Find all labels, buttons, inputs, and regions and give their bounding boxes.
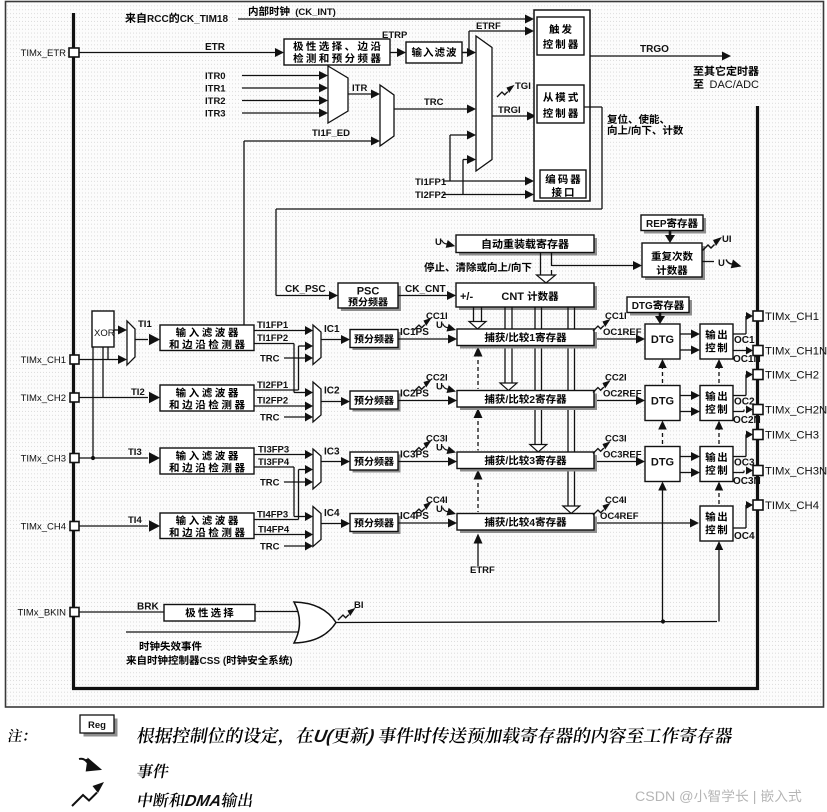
svg-text:TI2: TI2 <box>131 387 145 398</box>
svg-text:U: U <box>436 443 443 454</box>
wire OC2 to pad <box>733 395 746 397</box>
wire OC3N to pad <box>733 472 744 474</box>
svg-text:CC4I: CC4I <box>605 495 627 506</box>
svg-text:TIMx_CH1: TIMx_CH1 <box>21 355 66 366</box>
wire OC1N to pad <box>733 350 747 352</box>
box: capture/compare register 3 <box>460 455 597 472</box>
svg-text:(CK_INT): (CK_INT) <box>295 7 336 18</box>
dashed BI into output control 1 <box>718 368 720 383</box>
svg-text:OC3REF: OC3REF <box>603 450 642 461</box>
svg-text:/: / <box>505 394 508 406</box>
svg-text:DTG: DTG <box>651 396 674 408</box>
svg-text:U: U <box>436 382 443 393</box>
label: to other timers <box>694 66 704 75</box>
svg-text:TRC: TRC <box>260 542 280 553</box>
zigzag CC2I right <box>593 380 611 392</box>
svg-text:ITR: ITR <box>352 83 367 94</box>
legend interrupt/DMA icon <box>72 782 104 806</box>
wire ETRF into trigger mux <box>462 52 468 54</box>
zigzag CC3I right <box>593 441 611 453</box>
event arrow U repetition <box>702 261 714 263</box>
svg-text:ITR2: ITR2 <box>205 96 226 107</box>
svg-text:TI2FP2: TI2FP2 <box>415 190 446 201</box>
pad TIMx_CH1 <box>753 311 763 321</box>
svg-text:): ) <box>289 656 292 667</box>
svg-text:IC2: IC2 <box>324 386 340 397</box>
svg-text:TRGO: TRGO <box>640 44 669 55</box>
svg-text:TIMx_CH1: TIMx_CH1 <box>765 311 819 323</box>
svg-text:TI1FP2: TI1FP2 <box>257 333 288 344</box>
svg-text:|: | <box>749 789 761 805</box>
wire XOR tap to CH2 <box>102 347 104 398</box>
wire counter to capture/compare 3 (double) <box>534 307 536 445</box>
box: prescaler IC4 <box>353 516 401 534</box>
box: XOR <box>92 311 114 347</box>
legend text: event <box>136 763 154 778</box>
wire TI4 <box>79 525 148 527</box>
svg-text:TIMx_CH2N: TIMx_CH2N <box>765 405 827 417</box>
wire ITR0 <box>242 75 320 77</box>
wire DTG2 to output control (upper) <box>680 395 692 397</box>
svg-text:U: U <box>718 258 725 269</box>
svg-text:OC2REF: OC2REF <box>603 389 642 400</box>
svg-text:OC1REF: OC1REF <box>603 327 642 338</box>
wire OC1 to pad <box>733 333 746 335</box>
box: capture/compare register 2 <box>460 394 597 411</box>
zigzag UI interrupt <box>703 237 723 251</box>
svg-text:CC3I: CC3I <box>605 434 627 445</box>
svg-text:TIMx_CH2: TIMx_CH2 <box>21 393 66 404</box>
pad TIMx_CH3N <box>753 466 763 476</box>
wire BRK <box>79 611 164 613</box>
svg-text:U: U <box>436 320 443 331</box>
svg-text:CC1I: CC1I <box>605 311 627 322</box>
svg-text:ITR0: ITR0 <box>205 71 226 82</box>
box: DTG 2 <box>645 386 680 421</box>
box: output control 4 <box>700 506 733 541</box>
wire DTG3 to output control (upper) <box>680 456 692 458</box>
svg-text:Reg: Reg <box>88 720 106 731</box>
svg-text:PSC: PSC <box>357 286 380 298</box>
pad TIMx_CH3 <box>753 430 763 440</box>
svg-text:TI1F_ED: TI1F_ED <box>312 128 350 139</box>
svg-text:TIMx_BKIN: TIMx_BKIN <box>17 608 66 619</box>
svg-text:3: 3 <box>529 455 535 467</box>
svg-text:): ) <box>364 726 380 746</box>
label: clock failure event <box>140 641 150 651</box>
wire TI3FP4 to IC4 mux <box>254 466 294 468</box>
wire OC3 to pad <box>733 456 746 458</box>
wire DTG1 to output control (lower) <box>680 349 692 351</box>
svg-text:OC2: OC2 <box>734 397 755 408</box>
svg-text:DTG: DTG <box>651 457 674 469</box>
dashed BI into output control 3 <box>718 490 720 504</box>
svg-text:CK_TIM18: CK_TIM18 <box>180 14 229 25</box>
wire CSS clock failure to OR gate <box>126 631 299 633</box>
box: capture/compare register 1 <box>460 332 597 349</box>
wire TRC channel4 <box>284 545 306 547</box>
dashed update arrow into capture/compare 2 <box>474 408 483 418</box>
svg-text:OC2N: OC2N <box>733 415 761 426</box>
svg-text:/: / <box>508 262 511 274</box>
svg-text:+/-: +/- <box>460 291 473 303</box>
svg-text:REP: REP <box>646 219 667 230</box>
wire XOR tap to CH3 <box>92 347 94 458</box>
svg-text:TIMx_CH4: TIMx_CH4 <box>21 522 66 533</box>
zigzag CC4I left <box>414 502 432 514</box>
wire DTG3 to output control (lower) <box>680 472 692 474</box>
box: prescaler IC3 <box>353 455 401 473</box>
wire OC4REF <box>597 522 691 524</box>
svg-text:BI: BI <box>354 600 364 611</box>
box: prescaler IC2 <box>353 394 401 412</box>
wire counter to capture/compare 1 (double) <box>473 307 475 322</box>
wire OC1REF <box>597 338 637 340</box>
svg-text:TIMx_CH1N: TIMx_CH1N <box>765 346 827 358</box>
zigzag CC3I left <box>414 440 432 452</box>
dashed BI into DTG1 <box>662 368 664 383</box>
zigzag TGI interrupt <box>497 85 515 97</box>
svg-text:TI3: TI3 <box>128 447 142 458</box>
pad TIMx_CH2 <box>70 393 79 402</box>
box: output control 2 <box>700 386 733 421</box>
svg-text:DAC/ADC: DAC/ADC <box>710 79 760 91</box>
wire slave mode control to prescaler <box>584 106 602 108</box>
wire XOR output to TI1 mux <box>114 329 119 331</box>
wire ITR1 <box>242 87 320 89</box>
wire IC2PS <box>398 400 449 402</box>
wire counter to capture/compare 2 (double) <box>504 307 506 384</box>
wire IC1 <box>321 339 342 341</box>
mux: TRC selector <box>380 85 394 146</box>
mux: IC2 selector <box>313 382 321 422</box>
svg-text:OC4: OC4 <box>734 531 755 542</box>
zigzag CC1I right <box>593 319 611 331</box>
wire IC3PS <box>398 461 449 463</box>
pad TIMx_CH3 <box>70 454 79 463</box>
wire TI1FP2 to IC2 mux <box>254 343 294 345</box>
box: REP register <box>644 218 706 234</box>
wire ETR <box>79 52 276 54</box>
bottom rail <box>72 687 759 690</box>
box: repetition counter <box>645 246 705 280</box>
svg-text:OC4REF: OC4REF <box>600 511 639 522</box>
box: DTG 1 <box>645 324 680 359</box>
pad TIMx_CH4 <box>70 522 79 531</box>
svg-text:TRC: TRC <box>260 478 280 489</box>
wire OC3REF <box>597 461 637 463</box>
wire update to repetition counter <box>552 265 634 267</box>
svg-text:TIMx_CH3N: TIMx_CH3N <box>765 466 827 478</box>
wire TI1FP1 to trigger mux and encoder <box>443 180 525 182</box>
svg-text:TI2FP2: TI2FP2 <box>257 396 288 407</box>
wire CK_CNT <box>398 295 448 297</box>
svg-text:TI1FP1: TI1FP1 <box>257 320 289 331</box>
wire TI1F_ED from channel1 filter <box>243 141 245 325</box>
wire TI2FP2 to trigger mux and encoder <box>443 194 525 196</box>
svg-text:/: / <box>505 517 508 529</box>
left pin rail <box>72 13 75 689</box>
wire TRC channel2 <box>284 416 306 418</box>
wire TI3 <box>79 457 148 459</box>
mux: IC4 selector <box>313 507 321 547</box>
svg-text:DMA: DMA <box>183 792 223 810</box>
wire counter to capture/compare 4 (double) <box>567 307 569 507</box>
svg-text:/: / <box>628 125 631 137</box>
box: slave mode controller <box>537 85 584 123</box>
zigzag CC2I left <box>414 379 432 391</box>
box: PSC prescaler <box>341 286 401 311</box>
label: from clock controller CSS <box>126 655 136 665</box>
wire IC2 <box>321 401 342 403</box>
legend text line 1 <box>136 727 156 744</box>
svg-text:CSDN @: CSDN @ <box>635 789 694 805</box>
legend text: interrupt and DMA output <box>137 792 153 807</box>
OR gate <box>294 602 336 643</box>
mux: TI1 selector <box>127 321 135 365</box>
wire TRGO <box>590 55 722 57</box>
svg-text:CSS (: CSS ( <box>200 656 227 667</box>
svg-text:CK_CNT: CK_CNT <box>405 284 446 295</box>
mux: IC1 selector <box>313 325 321 365</box>
dashed update arrow into capture/compare 3 <box>474 470 483 480</box>
svg-text:TIMx_CH3: TIMx_CH3 <box>765 430 819 442</box>
svg-text:TIMx_ETR: TIMx_ETR <box>21 48 67 59</box>
box: polarity selection <box>164 605 255 622</box>
wire TRC output of mux <box>394 108 468 110</box>
pad TIMx_CH4 <box>753 500 763 510</box>
box: output control 1 <box>700 324 733 359</box>
wire OC4 to pad <box>733 527 746 529</box>
box: prescaler IC1 <box>353 332 401 350</box>
box: input filter and edge detector channel 1 <box>160 325 254 351</box>
svg-text:XOR: XOR <box>94 328 115 339</box>
svg-text:DTG: DTG <box>632 301 653 312</box>
svg-text:IC3: IC3 <box>324 447 340 458</box>
zigzag BI interrupt <box>338 608 356 620</box>
wire XOR tap to CH1 <box>107 347 109 360</box>
wire BI <box>336 622 717 623</box>
wire TRGI <box>492 115 527 117</box>
wire TRC channel1 <box>284 357 306 359</box>
wire IC1PS <box>398 338 449 340</box>
wire TI1FP1 <box>254 330 306 332</box>
wire ITR <box>348 93 372 95</box>
svg-text:DTG: DTG <box>651 334 674 346</box>
svg-text:TIMx_CH4: TIMx_CH4 <box>765 500 819 512</box>
right pin rail <box>756 106 759 690</box>
wire ETRP <box>390 52 398 54</box>
mux: IC3 selector <box>313 449 321 489</box>
svg-text:ETRP: ETRP <box>382 30 408 41</box>
box: polarity selection edge detector prescaler <box>284 39 390 65</box>
label: note <box>7 729 23 742</box>
wire IC3 <box>321 461 342 463</box>
label: from RCC CK_TIM18 <box>125 13 135 23</box>
wire ETRF to trigger controller <box>462 52 469 54</box>
svg-text:TRC: TRC <box>260 354 280 365</box>
svg-text:ETRF: ETRF <box>470 565 495 576</box>
box: input filter and edge detector channel 2 <box>160 385 254 411</box>
pad TIMx_BKIN <box>70 608 79 617</box>
wire DTG1 to output control (upper) <box>680 333 692 335</box>
wire TI4FP3 to IC3 mux <box>254 519 299 521</box>
wire BI to DTG column <box>662 485 664 622</box>
box: input filter and edge detector channel 3 <box>160 448 254 474</box>
wire ETRF into capture/compare 4 <box>474 534 483 544</box>
box: encoder interface <box>540 170 586 198</box>
svg-text:IC4: IC4 <box>324 508 340 519</box>
svg-text:/: / <box>505 455 508 467</box>
box: CNT counter <box>459 286 597 310</box>
wire OC2REF <box>597 400 637 402</box>
svg-text:TI1: TI1 <box>138 319 152 330</box>
svg-text:CC2I: CC2I <box>605 373 627 384</box>
wire auto-reload to counter (double) <box>540 253 542 276</box>
box: trigger/slave-mode controller container <box>534 10 590 201</box>
svg-text:4: 4 <box>529 517 535 529</box>
svg-text:U(: U( <box>312 726 336 746</box>
box: output control 3 <box>700 447 733 482</box>
svg-text:ITR3: ITR3 <box>205 109 226 120</box>
wire ITR2 <box>242 100 320 102</box>
wire OC2N to pad <box>733 411 744 413</box>
wire TI2FP2 <box>254 405 306 407</box>
svg-text:TIMx_CH2: TIMx_CH2 <box>765 370 819 382</box>
box: input filter and edge detector channel 4 <box>160 513 254 539</box>
arrow DTG register to DTG <box>659 313 662 317</box>
box: trigger controller U_TRG <box>537 17 584 55</box>
wire IC4 <box>321 523 342 525</box>
wire BI to output-control column <box>718 545 720 622</box>
box: capture/compare register 4 <box>460 517 597 534</box>
svg-text:ETR: ETR <box>205 42 226 53</box>
wire ITR3 <box>242 112 320 114</box>
label: stop clear or up/down <box>424 262 434 272</box>
svg-text:/: / <box>505 332 508 344</box>
pad TIMx_ETR <box>69 48 79 57</box>
box: input filter <box>406 42 462 63</box>
wire TIMx_CH1 to mux <box>79 359 119 361</box>
svg-text:TI4: TI4 <box>128 515 142 526</box>
pad TIMx_CH2 <box>753 370 763 380</box>
zigzag CC4I right <box>593 503 611 515</box>
mux: trigger input selector <box>476 36 492 171</box>
svg-text:OC1: OC1 <box>734 335 755 346</box>
zigzag CC1I left <box>414 318 432 330</box>
box: DTG register <box>630 300 692 316</box>
label: to DAC/ADC <box>694 79 704 88</box>
label: internal clock CK_INT <box>249 6 258 16</box>
label: reset enable <box>607 114 617 124</box>
pad TIMx_CH1N <box>753 346 763 356</box>
svg-text:1: 1 <box>529 332 535 344</box>
wire polarity to OR gate <box>255 611 299 613</box>
svg-text:CK_PSC: CK_PSC <box>285 284 326 295</box>
svg-text:UI: UI <box>722 234 732 245</box>
wire TRC channel3 <box>284 481 306 483</box>
svg-text:TRC: TRC <box>260 413 280 424</box>
svg-text:OC3N: OC3N <box>733 476 761 487</box>
svg-text:U: U <box>435 237 442 248</box>
dashed BI into output control 2 <box>718 429 720 444</box>
wire IC4PS <box>398 522 449 524</box>
svg-text:TIMx_CH3: TIMx_CH3 <box>21 454 66 465</box>
wire TI2 <box>79 397 148 399</box>
dashed update arrow into capture/compare 1 <box>474 347 483 357</box>
svg-text:RCC: RCC <box>147 14 169 25</box>
svg-text:TRGI: TRGI <box>498 105 521 116</box>
svg-text:OC3: OC3 <box>734 458 755 469</box>
mux: ITR selector <box>328 66 348 123</box>
wire CK_INT to trigger controller <box>238 18 526 20</box>
label: up/down count <box>608 125 617 135</box>
wire TI4FP4 <box>254 534 306 536</box>
dashed BI into DTG2 <box>662 430 664 444</box>
svg-text:TGI: TGI <box>515 81 531 92</box>
box: DTG 3 <box>645 447 680 482</box>
arrow REP to repetition counter <box>669 231 672 236</box>
box: Reg legend <box>84 719 118 737</box>
svg-text:ITR1: ITR1 <box>205 84 226 95</box>
pad TIMx_CH2N <box>753 405 763 415</box>
svg-text:CNT: CNT <box>501 291 527 303</box>
svg-text:IC1: IC1 <box>324 324 340 335</box>
wire TI3FP3 <box>254 454 306 456</box>
svg-text:U: U <box>436 504 443 515</box>
svg-text:2: 2 <box>529 394 535 406</box>
svg-text:TI1FP1: TI1FP1 <box>415 177 447 188</box>
pad TIMx_CH1 <box>70 355 79 364</box>
box: auto-reload register <box>459 238 597 256</box>
wire TI2FP1 to IC1 mux <box>254 389 299 391</box>
svg-text:TRC: TRC <box>424 97 444 108</box>
wire TI1 into filter1 <box>135 339 148 341</box>
svg-text:BRK: BRK <box>137 602 159 613</box>
wire DTG2 to output control (lower) <box>680 411 692 413</box>
legend event arrow icon <box>76 756 104 776</box>
